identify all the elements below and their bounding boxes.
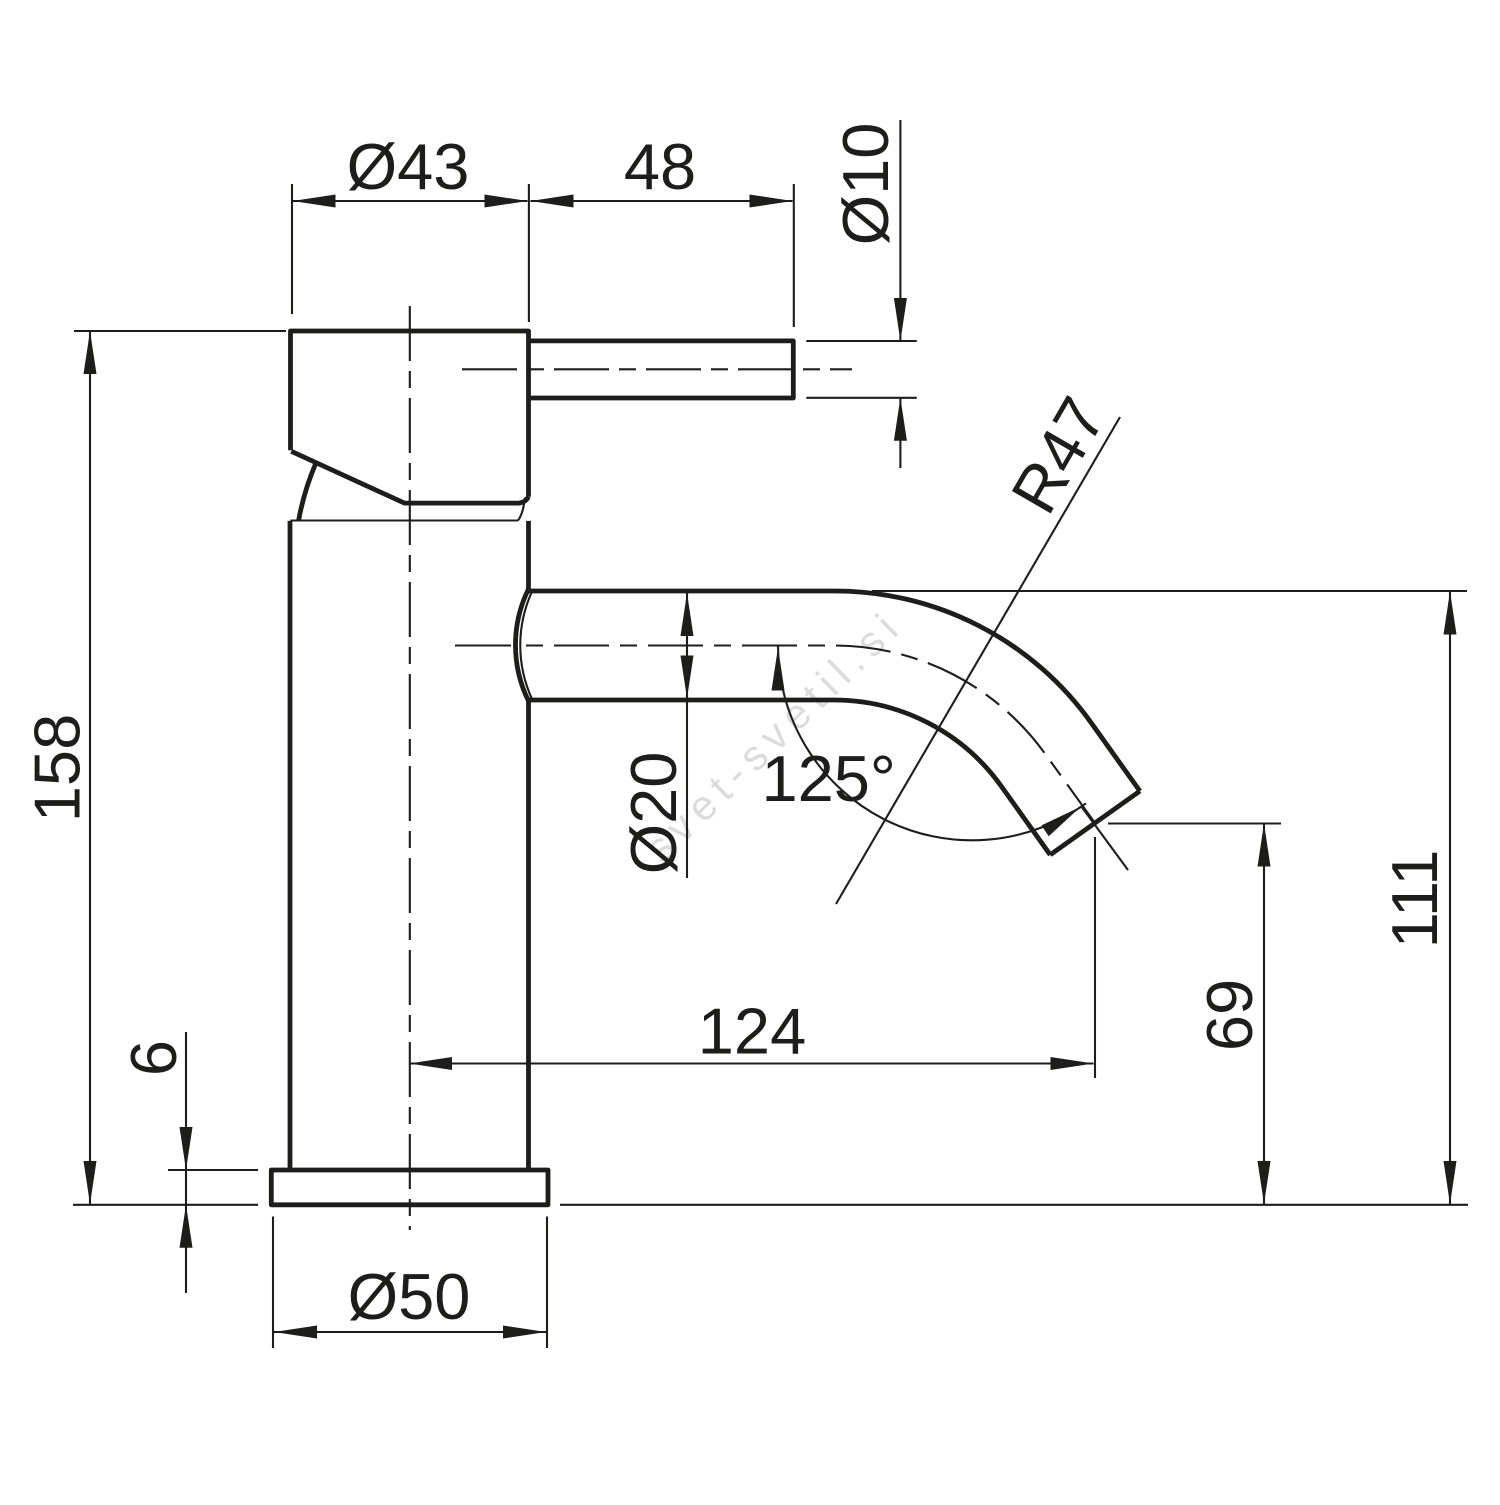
spout end cut edge [1050, 791, 1140, 855]
ext lines bottom left [73, 1170, 258, 1205]
ext lines top dims [292, 184, 794, 327]
svg-text:69: 69 [1193, 979, 1266, 1051]
vertical centerline [409, 306, 411, 1230]
lever pivot arc [299, 463, 316, 520]
svg-text:158: 158 [21, 714, 94, 822]
ext line 69 top [1108, 822, 1281, 824]
dim line 111 [1449, 592, 1451, 1205]
lever rod [529, 341, 793, 398]
column right edge [526, 521, 531, 1170]
arrow angle end [1042, 807, 1081, 837]
column top seam [290, 498, 525, 521]
arrow 158 top [84, 331, 97, 374]
dim line 69 [1263, 824, 1265, 1205]
dim line O20 [686, 593, 688, 878]
arrow O50 right [503, 1326, 546, 1339]
arrow 6 lower [180, 1205, 193, 1248]
arrow angle start [772, 648, 785, 691]
dim line 6 [185, 1032, 187, 1293]
arrow 158 bottom [84, 1161, 97, 1204]
arrow 124 left [409, 1057, 452, 1070]
arrow 111 bottom [1444, 1161, 1457, 1204]
svg-text:R47: R47 [997, 385, 1120, 525]
arrow 69 top [1258, 824, 1271, 867]
dim line O50 [274, 1331, 546, 1333]
svg-text:6: 6 [117, 1040, 190, 1076]
ext lines O10 [806, 341, 917, 398]
svg-text:Ø43: Ø43 [347, 130, 470, 203]
dim line O43 [293, 200, 528, 202]
ext lines O50 [273, 1217, 547, 1349]
arrow O20 up [681, 593, 694, 636]
ext line 111 top [872, 590, 1467, 592]
svg-text:125°: 125° [761, 742, 895, 815]
arrow 6 upper [180, 1127, 193, 1170]
dim line 158 [89, 331, 91, 1204]
R47 leader line [836, 417, 1120, 904]
arrow O20 down [681, 656, 694, 699]
svg-text:Ø10: Ø10 [829, 123, 902, 246]
spout root seam arc inner thin [520, 592, 532, 700]
ext line bottom right [560, 1204, 1468, 1206]
arrow 48 left [531, 195, 574, 208]
dim line 124 [409, 1062, 1094, 1064]
base plate [271, 1170, 548, 1205]
ext line 158 top [74, 330, 286, 332]
arrow 69 bottom [1258, 1161, 1271, 1204]
arrow O50 left [274, 1326, 317, 1339]
head bottom slant + bottom edge [291, 451, 528, 503]
arrow 48 right [750, 195, 793, 208]
svg-text:124: 124 [698, 995, 806, 1068]
svg-text:111: 111 [1378, 850, 1451, 949]
dim line O10 upper/lower [899, 120, 901, 468]
spout centerline solid start [455, 644, 511, 646]
lever centerline [462, 368, 852, 370]
spout root seam arc outer thick [515, 589, 528, 701]
arrow O10 top [894, 298, 907, 341]
ext line 124 right [1094, 837, 1096, 1078]
svg-text:Ø50: Ø50 [348, 1260, 471, 1333]
faucet outline: head top edge [291, 331, 529, 497]
spout top edge [529, 591, 1140, 791]
arrow 124 right [1051, 1057, 1094, 1070]
arrow 111 top [1444, 592, 1457, 635]
arrow O43 right [485, 195, 528, 208]
arrow O10 bottom [894, 398, 907, 441]
angle arc 125 [778, 646, 1086, 840]
spout bottom edge [529, 700, 1050, 855]
column left edge [288, 521, 293, 1170]
dim line 48 [531, 200, 793, 202]
arrow O43 left [293, 195, 336, 208]
svg-text:Ø20: Ø20 [617, 752, 690, 875]
spout centerline [526, 646, 1095, 824]
spout tip axis extension [1081, 806, 1128, 870]
svg-text:48: 48 [624, 130, 696, 203]
